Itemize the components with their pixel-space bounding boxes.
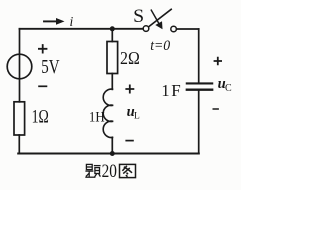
svg-text:C: C xyxy=(225,83,232,94)
resistor R1 1ohm body xyxy=(14,102,25,135)
wire middle branch upper xyxy=(111,29,113,42)
current arrow i head xyxy=(56,18,65,25)
caption char tu (figure) xyxy=(120,164,136,177)
voltage source U1 circle xyxy=(7,54,32,79)
wire top-right horizontal xyxy=(177,28,199,30)
svg-text:1H: 1H xyxy=(89,109,105,125)
switch S left contact xyxy=(143,26,149,32)
wire between R2 and L1 xyxy=(111,74,113,90)
wire right rail upper xyxy=(198,29,200,82)
svg-text:t=0: t=0 xyxy=(150,38,170,54)
svg-text:F: F xyxy=(171,81,180,100)
switch S blade xyxy=(149,9,171,26)
node junction top xyxy=(110,26,115,31)
capacitor C1 bottom plate xyxy=(187,89,212,91)
minus sign of uC xyxy=(213,108,219,110)
svg-text:20: 20 xyxy=(102,162,117,182)
resistor R2 2ohm body xyxy=(107,42,118,74)
plus sign of uC xyxy=(214,57,222,65)
switch S right contact xyxy=(171,26,177,32)
svg-text:1Ω: 1Ω xyxy=(32,107,49,128)
switch closing arrow head xyxy=(155,21,162,29)
switch closing arrow shaft xyxy=(151,10,159,23)
svg-text:2Ω: 2Ω xyxy=(120,48,140,68)
wire bottom rail xyxy=(18,153,199,155)
svg-text:1: 1 xyxy=(161,81,169,100)
inductor L1 1H coil xyxy=(103,89,113,137)
svg-text:S: S xyxy=(133,6,144,27)
minus sign of uL xyxy=(125,140,133,142)
caption char ti (question) xyxy=(85,164,100,177)
svg-text:5V: 5V xyxy=(41,56,60,78)
wire left rail vertical xyxy=(19,29,21,102)
wire right rail lower xyxy=(198,91,200,154)
wire top-left horizontal xyxy=(20,28,144,30)
plus sign of uL xyxy=(125,85,134,94)
wire below L1 xyxy=(111,137,113,153)
minus sign of source xyxy=(38,85,47,87)
node junction bottom xyxy=(110,151,115,156)
current arrow i shaft xyxy=(44,20,57,22)
wire left rail lower xyxy=(18,135,20,154)
svg-text:L: L xyxy=(134,112,140,122)
plus sign of source xyxy=(38,44,47,53)
svg-text:i: i xyxy=(70,14,74,29)
capacitor C1 top plate xyxy=(187,82,212,84)
